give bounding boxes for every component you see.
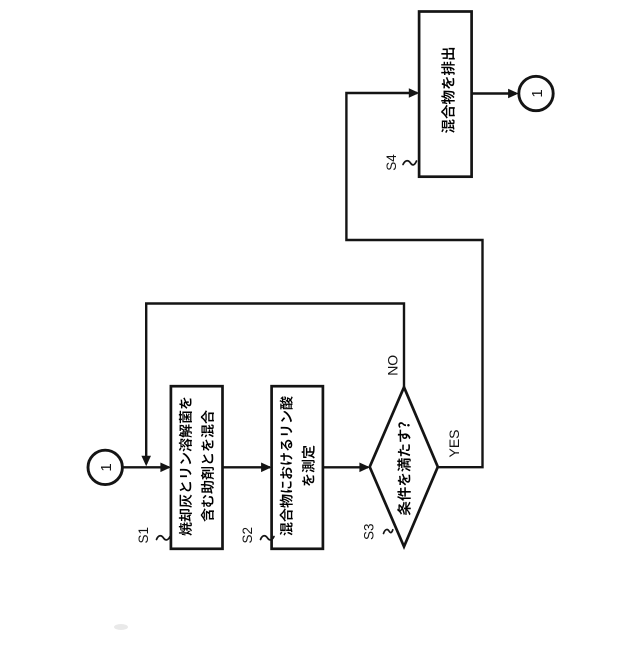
svg-text:S2: S2 [240,527,255,544]
svg-text:NO: NO [384,355,400,376]
svg-text:S3: S3 [362,523,377,540]
svg-text:S1: S1 [136,527,151,544]
svg-text:S4: S4 [384,154,399,171]
svg-text:YES: YES [446,429,462,457]
svg-text:1: 1 [529,89,546,97]
svg-text:1: 1 [98,463,115,471]
